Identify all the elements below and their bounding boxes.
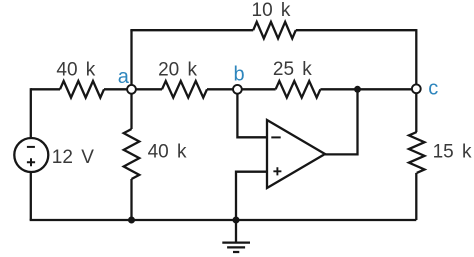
wire: ground rail up and right to non-inverting input xyxy=(236,172,267,220)
resistor 10 k (feedback, top rail) xyxy=(253,22,296,39)
label 40 k (horizontal resistor) xyxy=(56,59,95,80)
wire: top rail left segment xyxy=(130,29,253,31)
svg-text:c: c xyxy=(428,78,438,100)
svg-text:20 k: 20 k xyxy=(158,59,197,80)
svg-text:40 k: 40 k xyxy=(56,59,95,80)
node b (open terminal) xyxy=(233,85,242,94)
label b xyxy=(234,64,245,86)
resistor 25 k xyxy=(276,81,321,98)
wire: left vertical below source xyxy=(30,172,32,220)
wire: left vertical above source xyxy=(30,88,32,138)
voltage source 12 V xyxy=(14,138,48,172)
resistor 20 k xyxy=(162,81,207,98)
wire: op-amp output to junction on main line xyxy=(325,89,358,154)
junction: op-amp output at main line xyxy=(354,86,361,93)
wire: 40 k vertical to bottom rail xyxy=(130,179,132,220)
wire: node c down to 15 k xyxy=(415,89,417,132)
resistor 40 k (vertical, node a branch) xyxy=(124,129,140,179)
node c (open terminal) xyxy=(412,84,421,93)
wire: node b down and right to inverting input xyxy=(237,89,267,137)
label 10 k xyxy=(252,0,291,21)
ground xyxy=(222,220,250,252)
wire: main line, left end to 40 k xyxy=(31,88,60,90)
wire: node a down to 40 k vertical xyxy=(130,89,132,129)
svg-text:a: a xyxy=(118,66,130,88)
wire: 15 k to bottom rail xyxy=(415,173,417,220)
op-amp U1 xyxy=(267,120,325,188)
resistor 40 k (horizontal, left) xyxy=(60,81,104,98)
resistor 15 k xyxy=(409,132,425,173)
junction: ground / non-inverting branch at bottom rail xyxy=(233,217,240,224)
wire: 25 k to node c through output junction xyxy=(320,88,416,90)
label c xyxy=(428,78,438,100)
label 25 k xyxy=(273,59,312,80)
wire: node a up to top rail xyxy=(130,30,132,89)
wire: 40 k to 20 k through node a xyxy=(104,88,162,90)
svg-text:10 k: 10 k xyxy=(252,0,291,21)
svg-text:b: b xyxy=(234,64,245,86)
label 40 k (vertical resistor) xyxy=(148,142,187,163)
wire: 20 k to 25 k through node b xyxy=(207,88,276,90)
wire: bottom rail xyxy=(30,219,417,221)
label 12 V xyxy=(52,147,94,168)
node a (open terminal) xyxy=(127,85,136,94)
svg-text:40 k: 40 k xyxy=(148,142,187,163)
svg-text:15 k: 15 k xyxy=(433,142,472,163)
junction: 40 k vertical at bottom rail xyxy=(128,217,135,224)
svg-text:12 V: 12 V xyxy=(52,147,94,168)
wire: right drop from top rail to node c xyxy=(415,29,417,89)
label a xyxy=(118,66,130,88)
svg-text:25 k: 25 k xyxy=(273,59,312,80)
label 20 k xyxy=(158,59,197,80)
wire: top rail right segment xyxy=(296,29,417,31)
label 15 k xyxy=(433,142,472,163)
